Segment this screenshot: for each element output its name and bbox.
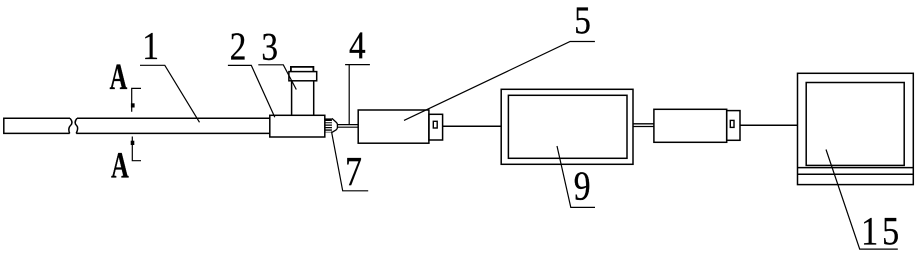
wire connector to monitor — [740, 124, 798, 126]
section marker A bottom — [132, 137, 141, 161]
svg-text:1: 1 — [861, 210, 878, 254]
wire box5 to box9 — [443, 125, 502, 127]
nozzle cone — [332, 118, 338, 132]
connector end cap — [727, 111, 740, 141]
svg-text:2: 2 — [230, 25, 247, 68]
leader line 7 — [332, 132, 369, 191]
leader line 9 — [557, 146, 595, 207]
leader line 5 — [404, 42, 595, 121]
monitor 15 screen — [806, 83, 904, 166]
box 9 inner — [508, 95, 627, 158]
svg-text:4: 4 — [349, 23, 366, 66]
connector main body — [654, 109, 727, 142]
leader line 1 — [140, 65, 200, 122]
monitor bottom panel lines — [798, 168, 914, 175]
leader line 4 — [345, 65, 370, 125]
svg-text:A: A — [111, 144, 129, 185]
double wire box9 to connector — [633, 124, 654, 127]
box 9 outer — [501, 89, 633, 164]
svg-text:9: 9 — [574, 165, 591, 210]
box 5 end cap slot — [433, 121, 437, 128]
section marker A top — [132, 88, 141, 111]
svg-text:A: A — [110, 56, 128, 97]
section arrow blob top — [131, 103, 135, 107]
section arrow blob bottom — [131, 141, 135, 145]
valve 3 top cap — [291, 67, 314, 72]
leader line 2 — [228, 65, 275, 117]
leader line 15 — [826, 150, 898, 250]
svg-text:1: 1 — [142, 24, 159, 67]
thin fiber tube to box 5 — [338, 125, 359, 128]
svg-text:5: 5 — [882, 210, 899, 254]
leader line 3 — [258, 65, 296, 90]
svg-text:3: 3 — [261, 25, 278, 68]
box 5 end cap — [429, 114, 443, 140]
valve 3 flange — [289, 72, 317, 81]
box 5 main body — [358, 110, 429, 143]
connector end cap slot — [730, 120, 734, 127]
monitor 15 outer case — [798, 73, 914, 184]
probe tube segment 1 (left, with break) — [4, 118, 72, 133]
svg-text:7: 7 — [345, 150, 362, 195]
block 2 body — [270, 115, 325, 137]
connector nozzle 7 hatched body — [325, 118, 332, 132]
valve 3 cylinder body — [292, 81, 314, 116]
svg-text:5: 5 — [574, 0, 591, 42]
probe tube segment 2 (break to block) — [75, 118, 270, 133]
